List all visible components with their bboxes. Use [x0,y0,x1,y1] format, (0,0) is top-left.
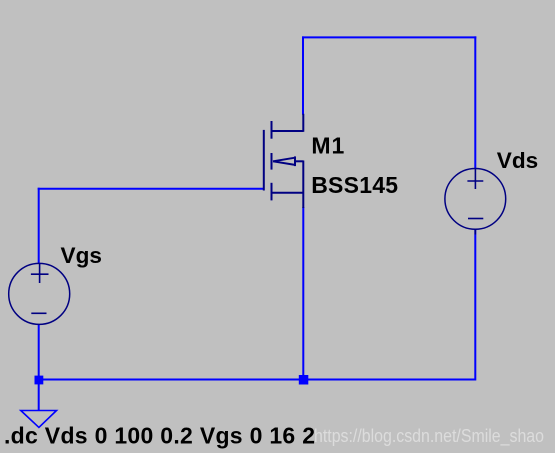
wire ground stem [38,380,40,411]
circle body [9,263,70,324]
voltage source V1 Vgs [9,263,70,324]
wire gate horizontal [38,188,264,190]
source horizontal [272,192,304,194]
minus sign [31,312,46,314]
circle body [445,169,506,230]
gate bar [263,130,265,191]
wire drain vertical [302,36,304,114]
wire top horizontal (drain to Vds+) [302,36,476,38]
voltage source V2 Vds [445,169,506,235]
svg-text:M1: M1 [311,133,345,159]
wire source vertical [302,207,304,380]
body arrow head [273,158,295,162]
junction at Vgs / bottom rail [35,376,44,385]
plus sign [39,264,41,284]
drain lead [302,114,304,132]
body stub [271,153,273,170]
body arrow tail [294,160,303,162]
wire bottom horizontal [39,379,476,381]
junction at M1 source / bottom rail [299,375,309,385]
wire Vds lower vertical [474,229,476,381]
source stub [271,183,273,201]
wire Vgs lower vertical [38,324,40,379]
svg-text:.dc Vds 0 100 0.2 Vgs 0 16 2: .dc Vds 0 100 0.2 Vgs 0 16 2 [4,422,315,448]
wire Vds upper vertical [474,36,476,168]
drain horizontal [272,130,304,132]
ground [21,411,57,428]
source/body lead [302,161,304,209]
svg-text:Vds: Vds [497,148,538,173]
wire Vgs upper vertical [38,188,40,264]
transistor M1 (NMOS BSS145) [264,114,304,208]
plus sign [474,169,476,189]
drain stub [271,121,273,139]
svg-text:Vgs: Vgs [61,243,102,268]
svg-text:https://blog.csdn.net/Smile_sh: https://blog.csdn.net/Smile_shao [314,426,544,447]
bottom lead [474,229,476,235]
svg-text:BSS145: BSS145 [311,172,398,198]
minus sign [468,218,483,220]
